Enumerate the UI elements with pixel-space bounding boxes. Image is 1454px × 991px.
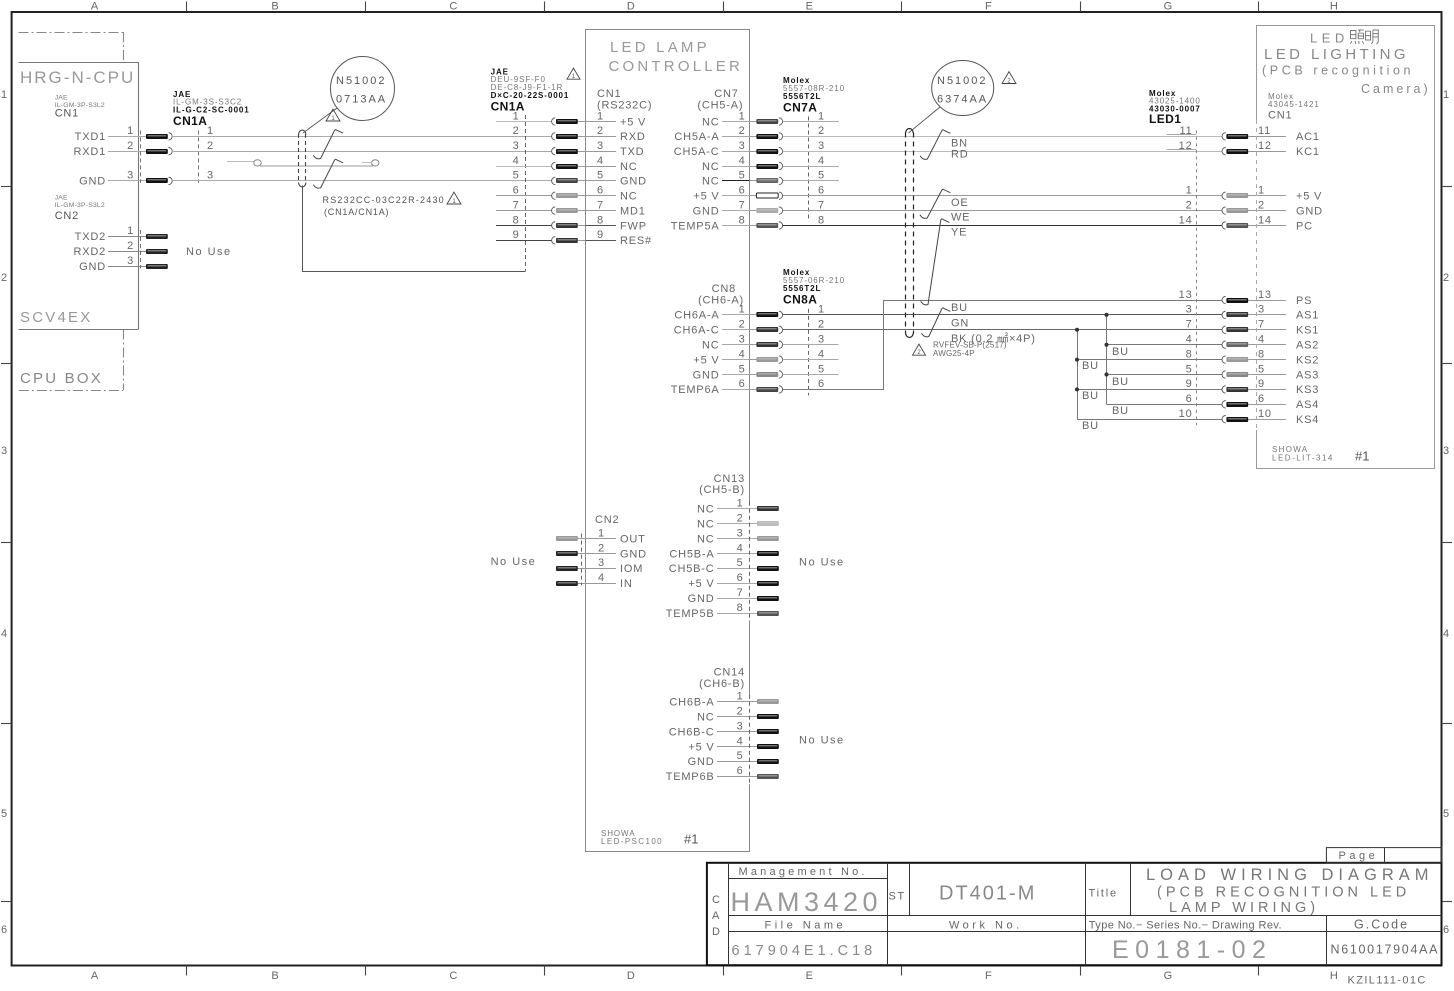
svg-text:1: 1 bbox=[1443, 89, 1450, 101]
svg-text:SCV4EX: SCV4EX bbox=[20, 309, 92, 326]
svg-text:C: C bbox=[712, 894, 721, 906]
crossing mark YE (long leader) bbox=[921, 219, 950, 305]
svg-text:3: 3 bbox=[513, 140, 520, 152]
pin number tick LED1-11 bbox=[1167, 134, 1197, 136]
svg-text:+5 V: +5 V bbox=[693, 354, 719, 366]
svg-text:9: 9 bbox=[597, 229, 604, 241]
svg-text:N51002: N51002 bbox=[937, 75, 988, 87]
connector CN8A crimp pin 5 bbox=[756, 372, 778, 377]
svg-text:No Use: No Use bbox=[186, 246, 232, 258]
svg-text:3: 3 bbox=[737, 527, 744, 539]
svg-text:9: 9 bbox=[513, 229, 520, 241]
svg-text:CH6A-A: CH6A-A bbox=[674, 310, 719, 322]
svg-text:RXD1: RXD1 bbox=[73, 146, 106, 158]
svg-text:A: A bbox=[91, 1, 99, 13]
svg-text:Work No.: Work No. bbox=[949, 920, 1023, 932]
svg-text:LED LIGHTING: LED LIGHTING bbox=[1264, 46, 1409, 63]
wire YE wire TEMP5A (CN7A-8 to LED1-14) bbox=[783, 225, 1223, 227]
connector CN13 crimp pin 3 bbox=[757, 536, 779, 541]
svg-text:4: 4 bbox=[598, 572, 605, 584]
svg-text:CN2: CN2 bbox=[595, 514, 619, 526]
svg-text:NC: NC bbox=[697, 712, 715, 724]
svg-text:(RS232C): (RS232C) bbox=[597, 100, 652, 112]
branch wire AS3 bbox=[1107, 374, 1223, 376]
connector CN8A crimp pin 3 bbox=[756, 342, 778, 347]
svg-text:JAE: JAE bbox=[55, 95, 68, 102]
svg-text:1: 1 bbox=[818, 304, 825, 316]
svg-text:A: A bbox=[712, 910, 720, 922]
svg-text:IOM: IOM bbox=[620, 563, 643, 575]
svg-text:File Name: File Name bbox=[765, 920, 847, 932]
svg-text:2: 2 bbox=[739, 319, 746, 331]
svg-text:11: 11 bbox=[1258, 125, 1271, 137]
connector CN7A crimp pin 2 bbox=[756, 134, 778, 139]
svg-text:12: 12 bbox=[1258, 140, 1272, 152]
connector CN1A crimp pin 3 bbox=[556, 149, 578, 154]
warning triangle 1 (near balloon 0713AA) bbox=[326, 109, 340, 121]
svg-text:1: 1 bbox=[597, 110, 604, 122]
svg-text:6: 6 bbox=[818, 378, 825, 390]
bus wire AS1-AS4 vertical bbox=[1106, 315, 1108, 404]
svg-text:4: 4 bbox=[513, 155, 520, 167]
svg-text:1: 1 bbox=[739, 304, 746, 316]
svg-text:13: 13 bbox=[1179, 289, 1193, 301]
svg-text:NC: NC bbox=[620, 191, 638, 203]
wire TXD1 net (HRG CN1-1 to cable CN1A pin2) bbox=[172, 136, 552, 138]
branch wire AS2 bbox=[1107, 344, 1223, 346]
svg-text:(PCB recognition: (PCB recognition bbox=[1262, 64, 1414, 78]
svg-text:TXD: TXD bbox=[620, 146, 644, 158]
connector CN1A crimp pin 2 bbox=[556, 134, 578, 139]
svg-text:5: 5 bbox=[597, 170, 604, 182]
svg-text:IL-GM-3P-S3L2: IL-GM-3P-S3L2 bbox=[55, 202, 105, 209]
wire BN wire CH5A-A (CN7A-2 to LED1-11) bbox=[783, 136, 1223, 138]
svg-text:PS: PS bbox=[1296, 295, 1312, 307]
svg-text:RD: RD bbox=[951, 149, 969, 161]
svg-text:3: 3 bbox=[739, 140, 746, 152]
junction dots bus A bbox=[1105, 313, 1109, 317]
svg-text:IN: IN bbox=[620, 578, 633, 590]
svg-text:CN8A: CN8A bbox=[783, 293, 817, 307]
svg-text:5: 5 bbox=[1443, 808, 1450, 820]
svg-text:2: 2 bbox=[127, 240, 134, 252]
connector CN14 crimp pin 2 bbox=[757, 714, 779, 719]
svg-text:8: 8 bbox=[818, 214, 825, 226]
svg-text:6: 6 bbox=[737, 572, 744, 584]
warning triangle (CN1A controller side) bbox=[567, 68, 580, 79]
svg-text:G.Code: G.Code bbox=[1354, 918, 1409, 932]
svg-text:1: 1 bbox=[737, 691, 744, 703]
svg-text:F: F bbox=[985, 1, 993, 13]
svg-text:1: 1 bbox=[127, 225, 134, 237]
cable crossing mark 2 bbox=[313, 159, 343, 188]
svg-text:7: 7 bbox=[513, 199, 520, 211]
svg-text:CH6B-C: CH6B-C bbox=[669, 726, 715, 738]
svg-text:CN8: CN8 bbox=[712, 283, 736, 295]
svg-text:NC: NC bbox=[702, 116, 720, 128]
svg-text:0713AA: 0713AA bbox=[336, 94, 387, 106]
leader from balloon to cable 2 bbox=[909, 107, 941, 133]
svg-text:PC: PC bbox=[1296, 220, 1313, 232]
svg-text:NC: NC bbox=[702, 161, 720, 173]
svg-text:8: 8 bbox=[1186, 348, 1193, 360]
svg-text:2: 2 bbox=[818, 319, 825, 331]
branch wire AS4 bbox=[1107, 404, 1223, 406]
svg-text:1: 1 bbox=[1186, 185, 1193, 197]
svg-text:7: 7 bbox=[597, 199, 604, 211]
svg-text:5: 5 bbox=[739, 170, 746, 182]
svg-text:LED-LIT-314: LED-LIT-314 bbox=[1272, 454, 1334, 463]
svg-text:3: 3 bbox=[598, 557, 605, 569]
svg-text:TEMP6B: TEMP6B bbox=[666, 771, 715, 783]
svg-text:CH5B-C: CH5B-C bbox=[669, 563, 715, 575]
wire BK TEMP6A (CN8A-6 up to PS row) bbox=[783, 301, 1223, 390]
svg-text:1: 1 bbox=[818, 110, 825, 122]
svg-text:43045-1421: 43045-1421 bbox=[1268, 100, 1320, 109]
svg-text:E0181-02: E0181-02 bbox=[1112, 936, 1272, 964]
svg-text:4: 4 bbox=[737, 542, 744, 554]
svg-text:6: 6 bbox=[1258, 393, 1265, 405]
svg-text:2: 2 bbox=[597, 125, 604, 137]
svg-text:5: 5 bbox=[818, 170, 825, 182]
svg-text:KS2: KS2 bbox=[1296, 354, 1319, 366]
connector CN2 crimp pin 3 bbox=[556, 566, 578, 571]
connector CN1A crimp pin 7 bbox=[556, 208, 578, 213]
svg-text:CN1A: CN1A bbox=[491, 100, 525, 114]
svg-text:AC1: AC1 bbox=[1296, 131, 1320, 143]
svg-text:3: 3 bbox=[818, 140, 825, 152]
connector CN1A controller-side pin rows bbox=[525, 115, 527, 271]
svg-text:RES#: RES# bbox=[620, 235, 652, 247]
svg-text:CH5A-A: CH5A-A bbox=[674, 131, 719, 143]
svg-text:3: 3 bbox=[818, 334, 825, 346]
connector CN14 crimp pin 6 bbox=[757, 774, 779, 779]
svg-text:TXD2: TXD2 bbox=[75, 231, 106, 243]
svg-text:6: 6 bbox=[739, 185, 746, 197]
svg-text:AS2: AS2 bbox=[1296, 340, 1319, 352]
svg-text:LED1: LED1 bbox=[1149, 112, 1181, 126]
svg-text:GND: GND bbox=[688, 593, 715, 605]
connector CN7A pin rows bbox=[808, 117, 810, 222]
svg-text:D: D bbox=[627, 970, 636, 982]
svg-text:4: 4 bbox=[1, 628, 8, 640]
warning triangle 2 (cable 2 type) bbox=[913, 344, 926, 355]
svg-text:CN1: CN1 bbox=[1268, 110, 1292, 122]
connector CN7A crimp pin 8 bbox=[756, 223, 778, 228]
connector CN14 crimp pin 1 bbox=[757, 699, 779, 704]
svg-text:BN: BN bbox=[951, 137, 968, 149]
svg-text:6: 6 bbox=[513, 185, 520, 197]
svg-text:1: 1 bbox=[739, 110, 746, 122]
svg-text:BU: BU bbox=[1082, 390, 1099, 402]
branch wire KS2 bbox=[1077, 359, 1223, 361]
junction dots bus B bbox=[1075, 328, 1079, 332]
connector CN8A crimp pin 2 bbox=[756, 327, 778, 332]
svg-text:4: 4 bbox=[597, 155, 604, 167]
svg-text:Management No.: Management No. bbox=[739, 866, 868, 878]
svg-text:2: 2 bbox=[739, 125, 746, 137]
svg-text:CN2: CN2 bbox=[55, 210, 79, 222]
svg-text:(PCB RECOGNITION LED: (PCB RECOGNITION LED bbox=[1157, 885, 1410, 901]
svg-text:6: 6 bbox=[1, 924, 8, 936]
connector CN7A crimp pin 5 bbox=[756, 178, 778, 183]
connector CN1A crimp pin 1 bbox=[556, 119, 578, 124]
svg-text:LED: LED bbox=[1310, 31, 1349, 46]
svg-text:LED LAMP: LED LAMP bbox=[610, 39, 710, 56]
connector CN8A crimp pin 4 bbox=[756, 357, 778, 362]
warning triangle 2 (near balloon 6374AA) bbox=[1002, 72, 1016, 84]
svg-text:+5 V: +5 V bbox=[688, 741, 714, 753]
svg-text:N51002: N51002 bbox=[336, 75, 387, 87]
wire BU CH6A-A (CN8A-1 to LED1-3 AS1) bbox=[783, 314, 1223, 316]
warning triangle (cable 1 type) bbox=[447, 192, 461, 204]
svg-text:E: E bbox=[806, 1, 814, 13]
svg-text:No Use: No Use bbox=[491, 556, 537, 568]
connector CN1 HRG crimp pin 2 bbox=[146, 149, 168, 154]
svg-text:CN7A: CN7A bbox=[783, 101, 817, 115]
wire GN CH6A-C (CN8A-2 to LED1-7 KS1) bbox=[783, 329, 1223, 331]
svg-text:GND: GND bbox=[1296, 205, 1323, 217]
svg-text:2: 2 bbox=[1443, 272, 1450, 284]
svg-text:MD1: MD1 bbox=[620, 205, 646, 217]
svg-text:E: E bbox=[806, 970, 814, 982]
svg-text:B: B bbox=[271, 1, 279, 13]
svg-text:TXD1: TXD1 bbox=[75, 131, 106, 143]
connector CN1A crimp pin 5 bbox=[556, 178, 578, 183]
connector CN13 crimp pin 8 bbox=[757, 611, 779, 616]
svg-text:GND: GND bbox=[620, 176, 647, 188]
svg-text:2: 2 bbox=[513, 125, 520, 137]
svg-text:14: 14 bbox=[1258, 214, 1272, 226]
svg-text:7: 7 bbox=[739, 199, 746, 211]
svg-text:LED-PSC100: LED-PSC100 bbox=[601, 837, 663, 846]
title block grid bbox=[707, 863, 1442, 965]
svg-text:3: 3 bbox=[127, 255, 134, 267]
pin number tick LED1-12 bbox=[1167, 149, 1197, 151]
connector CN7A crimp pin 3 bbox=[756, 149, 778, 154]
svg-text:4: 4 bbox=[1443, 628, 1450, 640]
cable shield drain wire bbox=[303, 186, 526, 272]
svg-text:1: 1 bbox=[513, 110, 520, 122]
stub wire CN7A pin 4 (NC) bbox=[783, 166, 839, 168]
svg-text:GND: GND bbox=[79, 176, 106, 188]
svg-text:12: 12 bbox=[1179, 140, 1193, 152]
connector CN8A crimp pin 6 bbox=[756, 387, 778, 392]
svg-text:6: 6 bbox=[737, 765, 744, 777]
svg-text:CN7: CN7 bbox=[714, 88, 738, 100]
connector CN13 crimp pin 2 bbox=[757, 521, 779, 526]
connector CN13 crimp pin 4 bbox=[757, 551, 779, 556]
stub wire CN7A pin 1 (NC) bbox=[783, 121, 839, 123]
connector CN2 HRG crimp pin 1 bbox=[146, 234, 168, 239]
wire WE wire GND (CN7A-7 to LED1-2) bbox=[783, 210, 1223, 212]
svg-text:1: 1 bbox=[1, 89, 8, 101]
stub wire CN7A pin 5 (NC) bbox=[783, 180, 839, 182]
svg-text:5: 5 bbox=[739, 363, 746, 375]
connector CN13 crimp pin 5 bbox=[757, 566, 779, 571]
svg-text:FWP: FWP bbox=[620, 220, 647, 232]
connector CN8A pin rows bbox=[808, 309, 810, 396]
svg-text:D: D bbox=[712, 926, 721, 938]
connector CN1A crimp pin 9 bbox=[556, 238, 578, 243]
connector CN14 crimp pin 5 bbox=[757, 759, 779, 764]
svg-text:AS3: AS3 bbox=[1296, 369, 1319, 381]
svg-text:8: 8 bbox=[1258, 348, 1265, 360]
svg-text:CN1: CN1 bbox=[597, 88, 621, 100]
svg-text:4: 4 bbox=[737, 735, 744, 747]
svg-text:3: 3 bbox=[739, 334, 746, 346]
svg-text:8: 8 bbox=[739, 214, 746, 226]
svg-text:CN14: CN14 bbox=[714, 667, 745, 679]
svg-text:NC: NC bbox=[697, 504, 715, 516]
connector CN1 HRG crimp pin 1 bbox=[146, 134, 168, 139]
crossover loop wire (RS232 cable twist) bbox=[260, 165, 373, 167]
cable sheath oval (RS232 cable) bbox=[298, 134, 300, 183]
svg-text:2: 2 bbox=[737, 513, 744, 525]
svg-text:CH5B-A: CH5B-A bbox=[669, 548, 714, 560]
svg-text:C: C bbox=[449, 1, 458, 13]
connector CN1A cable-side pin numbers bbox=[198, 130, 200, 183]
svg-text:No Use: No Use bbox=[799, 557, 845, 569]
svg-text:CH6A-C: CH6A-C bbox=[674, 325, 720, 337]
connector CN2 HRG crimp pin 2 bbox=[146, 249, 168, 254]
branch wire KS4 bbox=[1077, 419, 1223, 421]
svg-text:(CH6-A): (CH6-A) bbox=[698, 295, 744, 307]
svg-text:CPU BOX: CPU BOX bbox=[20, 370, 103, 387]
svg-text:Page: Page bbox=[1339, 850, 1379, 862]
svg-text:F: F bbox=[985, 970, 993, 982]
svg-text:GND: GND bbox=[688, 756, 715, 768]
svg-text:GND: GND bbox=[79, 261, 106, 273]
svg-text:2: 2 bbox=[818, 125, 825, 137]
svg-text:+5 V: +5 V bbox=[620, 116, 646, 128]
wire OE wire +5V (CN7A-6 to LED1-1) bbox=[783, 195, 1223, 197]
connector CN7A crimp pin 4 bbox=[756, 164, 778, 169]
svg-text:GND: GND bbox=[620, 548, 647, 560]
connector CN13 crimp pin 1 bbox=[757, 506, 779, 511]
svg-text:HRG-N-CPU: HRG-N-CPU bbox=[20, 68, 135, 87]
connector CN14 crimp pin 4 bbox=[757, 744, 779, 749]
svg-text:NC: NC bbox=[702, 176, 720, 188]
wire RXD1 net (HRG CN1-2 to cable CN1A pin3) bbox=[172, 151, 552, 153]
cable sheath oval (LED cable) bbox=[905, 133, 907, 334]
svg-text:6: 6 bbox=[1443, 924, 1450, 936]
svg-text:(CH6-B): (CH6-B) bbox=[699, 678, 745, 690]
svg-text:BU: BU bbox=[1112, 405, 1129, 417]
svg-text:4: 4 bbox=[1258, 334, 1265, 346]
svg-text:8: 8 bbox=[737, 602, 744, 614]
balloon N51002 6374AA bbox=[932, 61, 994, 116]
svg-text:HAM3420: HAM3420 bbox=[731, 887, 883, 917]
svg-text:9: 9 bbox=[1258, 378, 1265, 390]
svg-text:H: H bbox=[1330, 970, 1339, 982]
svg-text:4: 4 bbox=[1186, 334, 1193, 346]
svg-text:1: 1 bbox=[598, 527, 605, 539]
svg-text:NC: NC bbox=[697, 533, 715, 545]
svg-text:3: 3 bbox=[1258, 304, 1265, 316]
svg-text:2: 2 bbox=[127, 140, 134, 152]
svg-text:5: 5 bbox=[737, 750, 744, 762]
svg-text:Type No.− Series No.− Drawing: Type No.− Series No.− Drawing Rev. bbox=[1089, 920, 1282, 932]
wire GND net (HRG CN1-3 to cable CN1A pin5) bbox=[172, 180, 552, 182]
svg-text:CN1: CN1 bbox=[55, 108, 79, 120]
connector CN2 crimp pin 2 bbox=[556, 551, 578, 556]
svg-text:13: 13 bbox=[1258, 289, 1272, 301]
wire RD wire CH5A-C (CN7A-3 to LED1-12) bbox=[783, 151, 1223, 153]
svg-text:N610017904AA: N610017904AA bbox=[1331, 943, 1440, 957]
connector CN13 crimp pin 6 bbox=[757, 581, 779, 586]
svg-text:CH5A-C: CH5A-C bbox=[674, 146, 720, 158]
svg-text:+5 V: +5 V bbox=[688, 578, 714, 590]
svg-text:RXD: RXD bbox=[620, 131, 646, 143]
LED LAMP CONTROLLER box bbox=[586, 30, 750, 852]
svg-text:NC: NC bbox=[697, 519, 715, 531]
svg-text:G: G bbox=[1164, 970, 1173, 982]
svg-text:9: 9 bbox=[1186, 378, 1193, 390]
svg-text:LAMP WIRING): LAMP WIRING) bbox=[1169, 900, 1319, 916]
svg-text:6374AA: 6374AA bbox=[937, 94, 988, 106]
svg-text:Title: Title bbox=[1089, 888, 1118, 900]
connector CN2 crimp pin 4 bbox=[556, 581, 578, 586]
svg-text:No Use: No Use bbox=[799, 735, 845, 747]
svg-text:10: 10 bbox=[1258, 408, 1272, 420]
svg-text:GND: GND bbox=[693, 369, 720, 381]
svg-text:Camera): Camera) bbox=[1361, 82, 1431, 96]
svg-text:8: 8 bbox=[597, 214, 604, 226]
svg-text:2: 2 bbox=[1186, 199, 1193, 211]
svg-text:C: C bbox=[449, 970, 458, 982]
svg-text:3: 3 bbox=[737, 720, 744, 732]
svg-text:7: 7 bbox=[737, 587, 744, 599]
svg-text:NC: NC bbox=[620, 161, 638, 173]
svg-text:CN1A: CN1A bbox=[173, 114, 207, 128]
balloon N51002 0713AA (cable part no.) bbox=[331, 57, 395, 121]
stub wire CN8A pin 5 bbox=[783, 374, 839, 376]
svg-text:OUT: OUT bbox=[620, 533, 646, 545]
stub wire CN8A pin 3 bbox=[783, 344, 839, 346]
svg-text:KZIL111-01C: KZIL111-01C bbox=[1348, 975, 1427, 987]
svg-text:6: 6 bbox=[597, 185, 604, 197]
svg-text:4: 4 bbox=[818, 348, 825, 360]
branch wire KS3 bbox=[1077, 389, 1223, 391]
svg-text:GN: GN bbox=[951, 317, 969, 329]
svg-text:RXD2: RXD2 bbox=[73, 246, 106, 258]
connector CN2 crimp pin 1 bbox=[556, 536, 578, 541]
svg-text:1: 1 bbox=[127, 125, 134, 137]
crossing mark BN/RD bbox=[920, 130, 950, 160]
svg-text:AWG25-4P: AWG25-4P bbox=[933, 349, 975, 358]
cable crossing mark 1 bbox=[313, 130, 343, 159]
svg-text:JAE: JAE bbox=[55, 195, 68, 202]
svg-text:CONTROLLER: CONTROLLER bbox=[609, 58, 744, 75]
svg-text:(CN1A/CN1A): (CN1A/CN1A) bbox=[324, 207, 389, 217]
svg-text:GND: GND bbox=[693, 205, 720, 217]
svg-text:KC1: KC1 bbox=[1296, 146, 1320, 158]
svg-text:7: 7 bbox=[1186, 319, 1193, 331]
connector CN1A crimp pin 8 bbox=[556, 223, 578, 228]
connector CN1A crimp pin 6 bbox=[556, 193, 578, 198]
svg-text:BU: BU bbox=[951, 302, 968, 314]
svg-text:14: 14 bbox=[1179, 214, 1193, 226]
svg-text:4: 4 bbox=[739, 155, 746, 167]
svg-text:(CH5-B): (CH5-B) bbox=[699, 484, 745, 496]
connector LED1 mating dashed line bbox=[1196, 130, 1198, 425]
svg-text:2: 2 bbox=[598, 542, 605, 554]
svg-text:617904E1.C18: 617904E1.C18 bbox=[732, 943, 877, 959]
connector CN8A crimp pin 1 bbox=[756, 312, 778, 317]
bus wire KS1-KS4 vertical bbox=[1077, 330, 1079, 419]
svg-text:4: 4 bbox=[818, 155, 825, 167]
